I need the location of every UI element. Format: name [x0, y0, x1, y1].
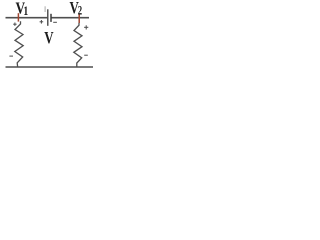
R1 minus sign — [9, 55, 13, 57]
node V2 red tick — [78, 14, 80, 23]
svg-text:1: 1 — [23, 5, 28, 19]
svg-text:V: V — [44, 29, 53, 47]
resistor R1 (left) — [15, 21, 23, 66]
R1 plus sign — [13, 23, 16, 26]
battery V: short negative plate — [50, 14, 52, 22]
resistor R2 (right) — [74, 23, 82, 67]
node V1 red tick — [17, 13, 19, 21]
battery minus sign — [53, 21, 57, 23]
R2 plus sign — [84, 25, 88, 29]
faint artifact mark — [44, 6, 46, 12]
battery label V — [44, 29, 53, 47]
svg-text:2: 2 — [78, 4, 82, 18]
label V2 — [70, 0, 79, 18]
wire: bottom rail — [6, 66, 94, 68]
battery V: long positive plate — [47, 9, 49, 26]
battery plus sign — [40, 20, 44, 24]
wire: top rail left segment — [6, 17, 48, 19]
label V1 — [16, 0, 26, 18]
wire: top rail right segment — [51, 17, 89, 19]
R2 minus sign — [84, 54, 88, 56]
